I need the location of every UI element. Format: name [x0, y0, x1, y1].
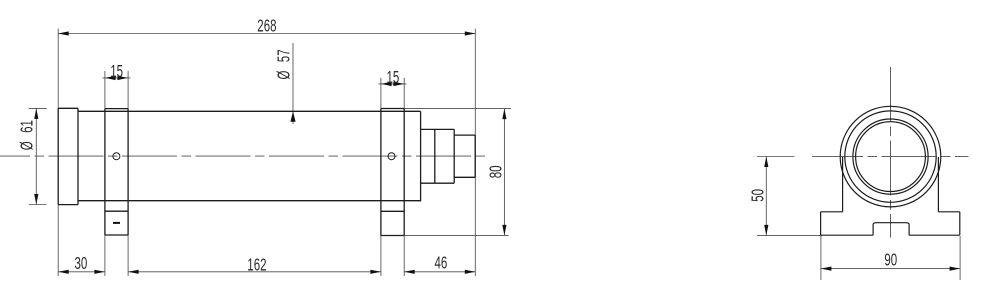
svg-text:162: 162: [247, 255, 266, 275]
svg-text:268: 268: [257, 16, 276, 36]
svg-text:15: 15: [110, 62, 123, 82]
svg-text:46: 46: [435, 253, 448, 273]
svg-text:30: 30: [75, 254, 88, 274]
svg-text:80: 80: [486, 165, 506, 178]
svg-text:50: 50: [748, 189, 768, 202]
svg-text:15: 15: [387, 68, 400, 88]
svg-text:90: 90: [884, 250, 897, 270]
